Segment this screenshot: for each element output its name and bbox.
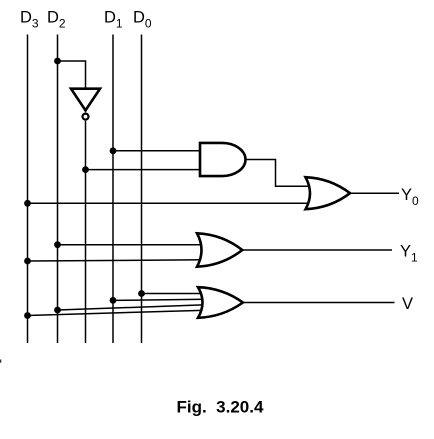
wire D0 to OR U5 input — [142, 293, 207, 295]
wire D2 to OR U5 input — [58, 305, 207, 310]
svg-text:V: V — [402, 295, 413, 313]
wire D0 vertical bus line — [141, 35, 143, 344]
inverter U1 bubble — [83, 114, 89, 120]
wire D3 vertical bus line — [27, 35, 29, 344]
wire D2 to OR U4 input — [58, 244, 207, 246]
wire inverter line to AND gate input — [86, 169, 209, 171]
or gate U5 — [198, 287, 243, 318]
wire AND output elbow to OR U3 — [246, 160, 313, 187]
junction dot inverter-AND — [82, 166, 89, 173]
page edge mark — [0, 360, 1, 363]
junction dot D1-U5 — [110, 297, 117, 304]
wire U3 output to Y0 — [351, 192, 400, 194]
junction dot D1-AND — [110, 147, 117, 154]
junction dot D2-U5 — [54, 307, 61, 314]
wire inverter output vertical line — [85, 121, 87, 343]
or gate U3 — [306, 177, 351, 209]
wire D1 to AND gate input — [113, 150, 208, 152]
junction dot D3-U5 — [24, 312, 31, 319]
or gate U4 — [197, 233, 242, 266]
inverter U1 triangle — [71, 89, 100, 111]
junction dot D3-U4 — [24, 258, 31, 265]
wire D2 vertical bus line — [57, 35, 59, 344]
wire D3 to OR U3 input — [28, 202, 313, 204]
junction dot D0-U5 — [138, 290, 145, 297]
junction dot D3-U3 — [24, 200, 31, 207]
wire U5 output to V — [243, 302, 395, 304]
wire D3 to OR U4 input — [28, 260, 207, 261]
wire D1 vertical bus line — [112, 35, 114, 344]
svg-text:Fig. 3.20.4: Fig. 3.20.4 — [177, 398, 264, 417]
wire U4 output to Y1 — [243, 249, 393, 251]
AND gate U2 — [200, 143, 246, 176]
wire D3 to OR U5 input — [28, 310, 207, 315]
junction dot D2-U4 — [54, 241, 61, 248]
wire D2 branch to inverter input — [58, 61, 86, 90]
wire D1 to OR U5 input — [113, 299, 206, 300]
junction dot D2-inverter — [54, 58, 61, 65]
